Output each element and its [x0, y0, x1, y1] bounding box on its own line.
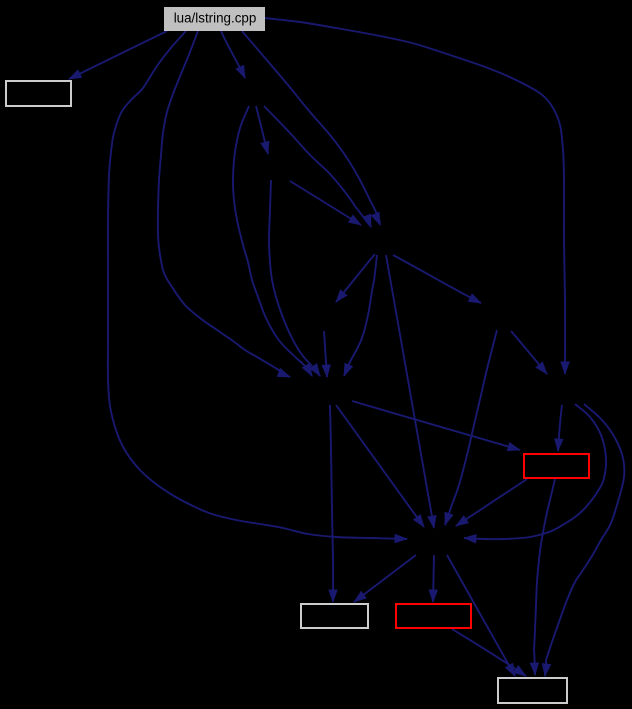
svg-text:lua/lstring.cpp: lua/lstring.cpp — [174, 10, 257, 25]
